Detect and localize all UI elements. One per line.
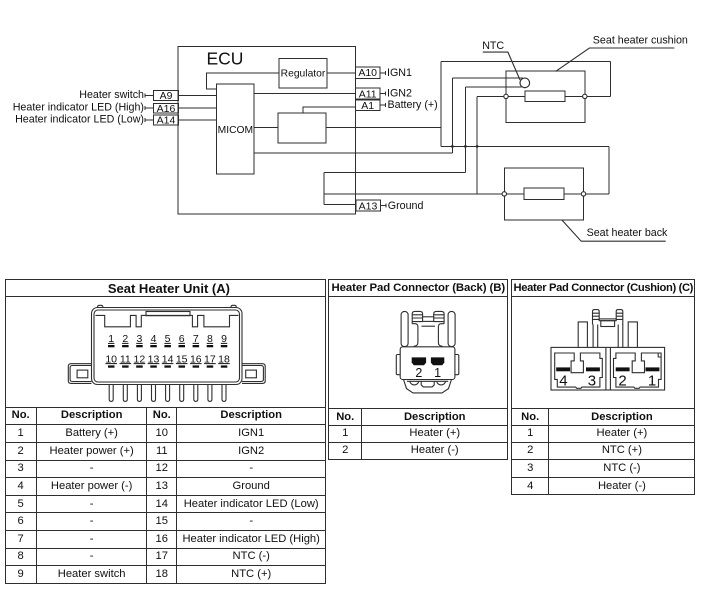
- tick A1: [385, 103, 387, 107]
- seat heater cushion box: [506, 71, 585, 123]
- wire cushion left horizontal: [477, 95, 506, 97]
- tick A9: [144, 93, 146, 97]
- connector B pin 1 pad: [431, 357, 444, 365]
- pin box A14: [154, 115, 179, 125]
- wire ground to A13: [324, 204, 356, 206]
- svg-text:Seat heater cushion: Seat heater cushion: [593, 35, 688, 47]
- svg-text:Battery (+): Battery (+): [388, 99, 438, 111]
- svg-text:Heater switch: Heater switch: [79, 89, 144, 101]
- pin box A11: [356, 88, 381, 99]
- back heater element resistor: [524, 188, 564, 200]
- pin box A10: [356, 67, 381, 79]
- svg-text:A16: A16: [157, 103, 176, 115]
- connector C pin 1 pad: [646, 367, 660, 371]
- svg-text:A13: A13: [359, 200, 378, 212]
- connector B pin 2 pad: [412, 357, 426, 365]
- wire MICOM to A11: [254, 93, 355, 95]
- connector C pin 3 pad: [586, 367, 600, 371]
- wire cushion right drop: [609, 61, 611, 96]
- connector C center post left hatch: [593, 313, 600, 324]
- svg-text:Seat heater back: Seat heater back: [587, 227, 668, 239]
- connector C pin 4 pad: [556, 367, 570, 371]
- wire back right drop: [608, 146, 610, 194]
- svg-text:A10: A10: [358, 67, 377, 79]
- connector A pin pads row 1: [108, 345, 227, 347]
- node back right terminal: [581, 192, 585, 196]
- wire back resistor left lead: [507, 193, 525, 195]
- connector A terminal prongs: [109, 385, 226, 402]
- connector C center post right hatch: [616, 313, 623, 324]
- connector C inner frame right notch: [658, 353, 661, 357]
- wire cushion left vertical: [476, 96, 478, 194]
- svg-text:MICOM: MICOM: [218, 125, 253, 136]
- wire cushion right stub: [585, 95, 611, 97]
- connector B skirt arc right: [437, 381, 446, 385]
- wire MICOM to driver box: [254, 127, 278, 129]
- NTC thermistor circle: [520, 78, 530, 88]
- junction dot 2: [464, 145, 467, 148]
- connector A top bump right: [231, 305, 236, 307]
- table Heater Pad Connector (Back) (B): [328, 279, 508, 460]
- back callout leader: [562, 220, 666, 241]
- cushion callout leader: [556, 48, 675, 71]
- stub A13: [380, 205, 386, 207]
- svg-text:A14: A14: [157, 115, 176, 127]
- connector A center key tab: [146, 312, 190, 316]
- connector B skirt center tab: [421, 381, 434, 387]
- node back left terminal: [502, 192, 506, 196]
- svg-text:Heater indicator LED (Low): Heater indicator LED (Low): [15, 114, 144, 126]
- MICOM box: [217, 84, 255, 174]
- wire A1 to driver box: [303, 107, 356, 113]
- connector B side tab right: [455, 355, 459, 375]
- connector A pin underlines row 2: [105, 363, 229, 365]
- junction dot 1: [451, 145, 454, 148]
- connector C outer prong right: [628, 322, 637, 348]
- connector A shell outer: [92, 308, 243, 385]
- connector C inner frame right: [614, 353, 662, 388]
- connector B left latch prong: [401, 311, 408, 346]
- connector A top bump left: [98, 305, 103, 307]
- wire regulator to MICOM: [207, 73, 279, 89]
- connector B center post left hatch: [412, 315, 422, 322]
- connector B center neck inner line: [422, 325, 436, 327]
- node cushion right terminal: [583, 94, 587, 98]
- wire regulator to A10: [327, 72, 356, 74]
- svg-text:A9: A9: [160, 90, 173, 102]
- connector B center post left: [412, 311, 422, 323]
- wire heater feed vertical: [440, 61, 442, 146]
- connector A right ear inner: [242, 366, 263, 382]
- tick A14: [144, 118, 146, 122]
- connector B center post right hatch: [434, 315, 444, 322]
- connector A left ear inner: [70, 366, 91, 382]
- svg-text:Ground: Ground: [388, 200, 424, 212]
- tick A10: [385, 71, 387, 75]
- tick A16: [144, 106, 146, 110]
- NTC callout leader: [483, 52, 520, 80]
- svg-text:ECU: ECU: [207, 49, 244, 69]
- connector A pin pads row 2: [108, 365, 227, 367]
- connector A shell inner: [94, 310, 240, 382]
- tick A13: [385, 204, 387, 208]
- table Seat Heater Unit (A): [5, 279, 327, 584]
- svg-text:IGN2: IGN2: [387, 88, 412, 100]
- wire A9 to MICOM: [179, 94, 217, 96]
- connector B body: [400, 347, 455, 380]
- junction dot 3: [476, 145, 479, 148]
- connector A keying profile: [96, 315, 239, 326]
- wire cushion resistor right lead: [565, 95, 583, 97]
- svg-text:NTC: NTC: [482, 40, 504, 52]
- connector C center post right: [616, 310, 623, 325]
- svg-text:A11: A11: [359, 88, 377, 100]
- connector B center bar: [423, 317, 434, 322]
- wire ground vertical: [323, 172, 325, 204]
- stub A10: [380, 72, 386, 74]
- connector A pin underlines row 1: [108, 342, 227, 344]
- pin box A9: [154, 90, 179, 100]
- stub A9: [145, 94, 154, 96]
- tick A11: [385, 92, 387, 96]
- connector B bottom skirt: [404, 380, 452, 393]
- wire NTC left horizontal: [452, 77, 523, 79]
- connector C center block: [601, 321, 615, 327]
- table Heater Pad Connector (Cushion) (C): [511, 279, 695, 495]
- svg-text:Regulator: Regulator: [281, 69, 326, 80]
- wire ground to NTC horizontal: [324, 171, 466, 173]
- cushion heater element resistor: [525, 91, 565, 102]
- connector A right ear hole: [246, 370, 257, 378]
- pin box A16: [154, 103, 179, 113]
- seat heater back box: [504, 168, 583, 220]
- connector A right ear: [242, 364, 265, 384]
- connector C center bar: [599, 319, 616, 321]
- connector B center neck left: [412, 324, 418, 347]
- ECU box U1: [178, 46, 356, 213]
- wire NTC bottom horizontal: [465, 86, 521, 88]
- connector C outer prong left: [578, 322, 587, 348]
- connector B skirt inner line: [407, 380, 448, 382]
- wire driver box to heater feed node: [326, 127, 441, 129]
- pin box A13: [356, 200, 381, 211]
- wire cushion resistor left lead: [508, 95, 525, 97]
- connector B side tab left: [396, 355, 400, 375]
- stub A1: [380, 104, 386, 106]
- connector B skirt arc left: [410, 381, 419, 385]
- connector B center neck right: [438, 324, 444, 347]
- connector C body: [551, 347, 665, 390]
- pin box A1: [356, 100, 381, 111]
- connector A left ear hole: [77, 370, 88, 378]
- connector C center channel: [606, 347, 611, 390]
- wire back resistor right lead: [564, 193, 582, 195]
- wire ground to back horizontal: [324, 193, 504, 195]
- wire A14 to MICOM: [179, 119, 217, 121]
- wire A16 to MICOM: [179, 107, 217, 109]
- regulator box: [279, 58, 327, 88]
- connector B center post right: [434, 311, 444, 323]
- connector C center post left: [593, 310, 600, 325]
- stub A16: [145, 107, 154, 109]
- connector A left ear: [68, 364, 91, 384]
- connector A pin numbers row 1: [108, 333, 227, 345]
- connector C center stem right: [618, 325, 623, 348]
- stub A14: [145, 119, 154, 121]
- connector B right latch prong: [448, 311, 455, 346]
- wire heater feed top horizontal: [441, 60, 610, 62]
- heater driver box: [278, 113, 326, 143]
- svg-text:Heater indicator LED (High): Heater indicator LED (High): [13, 102, 144, 114]
- wire heater feed lower horizontal: [441, 145, 609, 147]
- svg-text:IGN1: IGN1: [387, 67, 412, 79]
- connector C center stem left: [593, 325, 598, 348]
- wire MICOM to NTC horizontal: [254, 152, 452, 154]
- node cushion left terminal: [504, 94, 508, 98]
- wire back right stub: [584, 193, 610, 195]
- connector C pin 2 pad: [616, 367, 630, 371]
- stub A11: [380, 93, 386, 95]
- svg-text:A1: A1: [361, 100, 374, 112]
- wire NTC left vertical: [451, 78, 453, 153]
- wire NTC bottom vertical: [464, 87, 466, 172]
- connector A pin numbers row 2: [105, 353, 230, 365]
- connector C inner frame left: [555, 353, 603, 388]
